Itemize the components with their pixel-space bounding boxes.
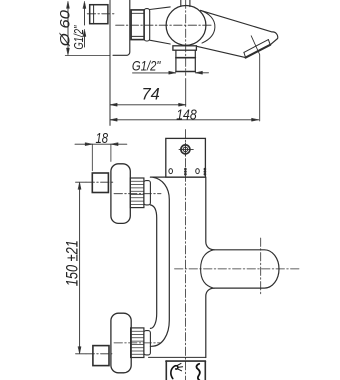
svg-text:18: 18	[96, 130, 109, 147]
dimension 74	[110, 103, 186, 106]
top union: body axis centerline	[114, 193, 161, 195]
spout root onion curve	[201, 250, 214, 288]
vertical centerline through knob (top view)	[185, 0, 187, 76]
main horizontal centerline (top view)	[116, 24, 213, 26]
wall thread square fitting (top view)	[90, 5, 108, 24]
bottom union: cap washer	[144, 331, 151, 355]
wall tube stub above knob (top view)	[181, 0, 190, 7]
top union: cap washer	[144, 181, 151, 205]
top union: eccentric thread centerline	[76, 181, 87, 183]
bottom union: knurled ring	[131, 328, 144, 358]
pipe top edge / plate bottom edge	[150, 176, 205, 178]
bottom union: square wall nut	[93, 346, 109, 366]
column right edge upper + spout top fillet	[206, 177, 214, 250]
top union: knurled ring	[130, 178, 144, 208]
Ø60 dimension line	[67, 1, 70, 55]
elbow inner curve + pipe left line	[150, 205, 156, 329]
wall escutcheon (top view, left)	[110, 0, 130, 125]
top union: square wall nut	[92, 173, 108, 193]
column right edge lower + spout bottom fillet	[206, 288, 214, 357]
mounting plate (side view)	[166, 138, 206, 177]
column bottom edge	[149, 356, 206, 358]
svg-text:74: 74	[142, 86, 160, 104]
plate markings o : o :	[169, 168, 206, 176]
union nut hex (top view)	[131, 10, 144, 40]
bottom union: eccentric thread centerline	[76, 353, 87, 355]
dimension 18	[75, 143, 127, 171]
left squiggle symbol in box	[171, 363, 183, 378]
Ø60 extension line	[65, 55, 110, 57]
right squiggle symbol in box	[196, 364, 199, 380]
shower outlet flange (top view)	[173, 46, 197, 50]
plate screw with crosshair	[179, 143, 193, 156]
aerator vertical centerline (side view)	[260, 238, 262, 295]
extension of centerline to 74 dim	[185, 79, 187, 107]
G1/2 outlet dimension (top view, below block)	[133, 71, 209, 74]
aerator band at spout tip (top view)	[244, 40, 270, 58]
vertical centerline of column (side view)	[184, 130, 186, 380]
extension line from aerator to 148	[251, 36, 260, 121]
dimension 150 ±21	[78, 182, 81, 354]
control knob circle (top view)	[166, 6, 206, 46]
svg-text:G1/2": G1/2"	[132, 58, 161, 74]
body cone to valve (top view)	[150, 7, 171, 44]
nut cap washer (top view)	[144, 9, 150, 41]
elbow outer curve + column left cover line	[150, 177, 169, 346]
G1/2 pointer at wall thread	[83, 1, 86, 47]
top union: escutcheon	[111, 164, 130, 224]
spout horizontal centerline	[175, 268, 300, 270]
svg-text:G1/2": G1/2"	[71, 25, 86, 50]
dimension 148	[110, 118, 259, 121]
spout root saddle curve (top view)	[201, 10, 215, 43]
eccentric thread centerline (top view)	[87, 13, 115, 15]
svg-text:150 ±21: 150 ±21	[64, 240, 82, 286]
bottom outlet box	[166, 361, 206, 380]
spout bottom edge (top view)	[197, 46, 246, 57]
bottom union: body axis centerline	[114, 342, 161, 344]
shower outlet block (top view)	[176, 50, 195, 71]
svg-text:148: 148	[176, 107, 197, 123]
bottom union: escutcheon	[111, 313, 131, 373]
spout outline (top view)	[201, 10, 278, 44]
spout (side view) with domed end	[214, 250, 279, 288]
